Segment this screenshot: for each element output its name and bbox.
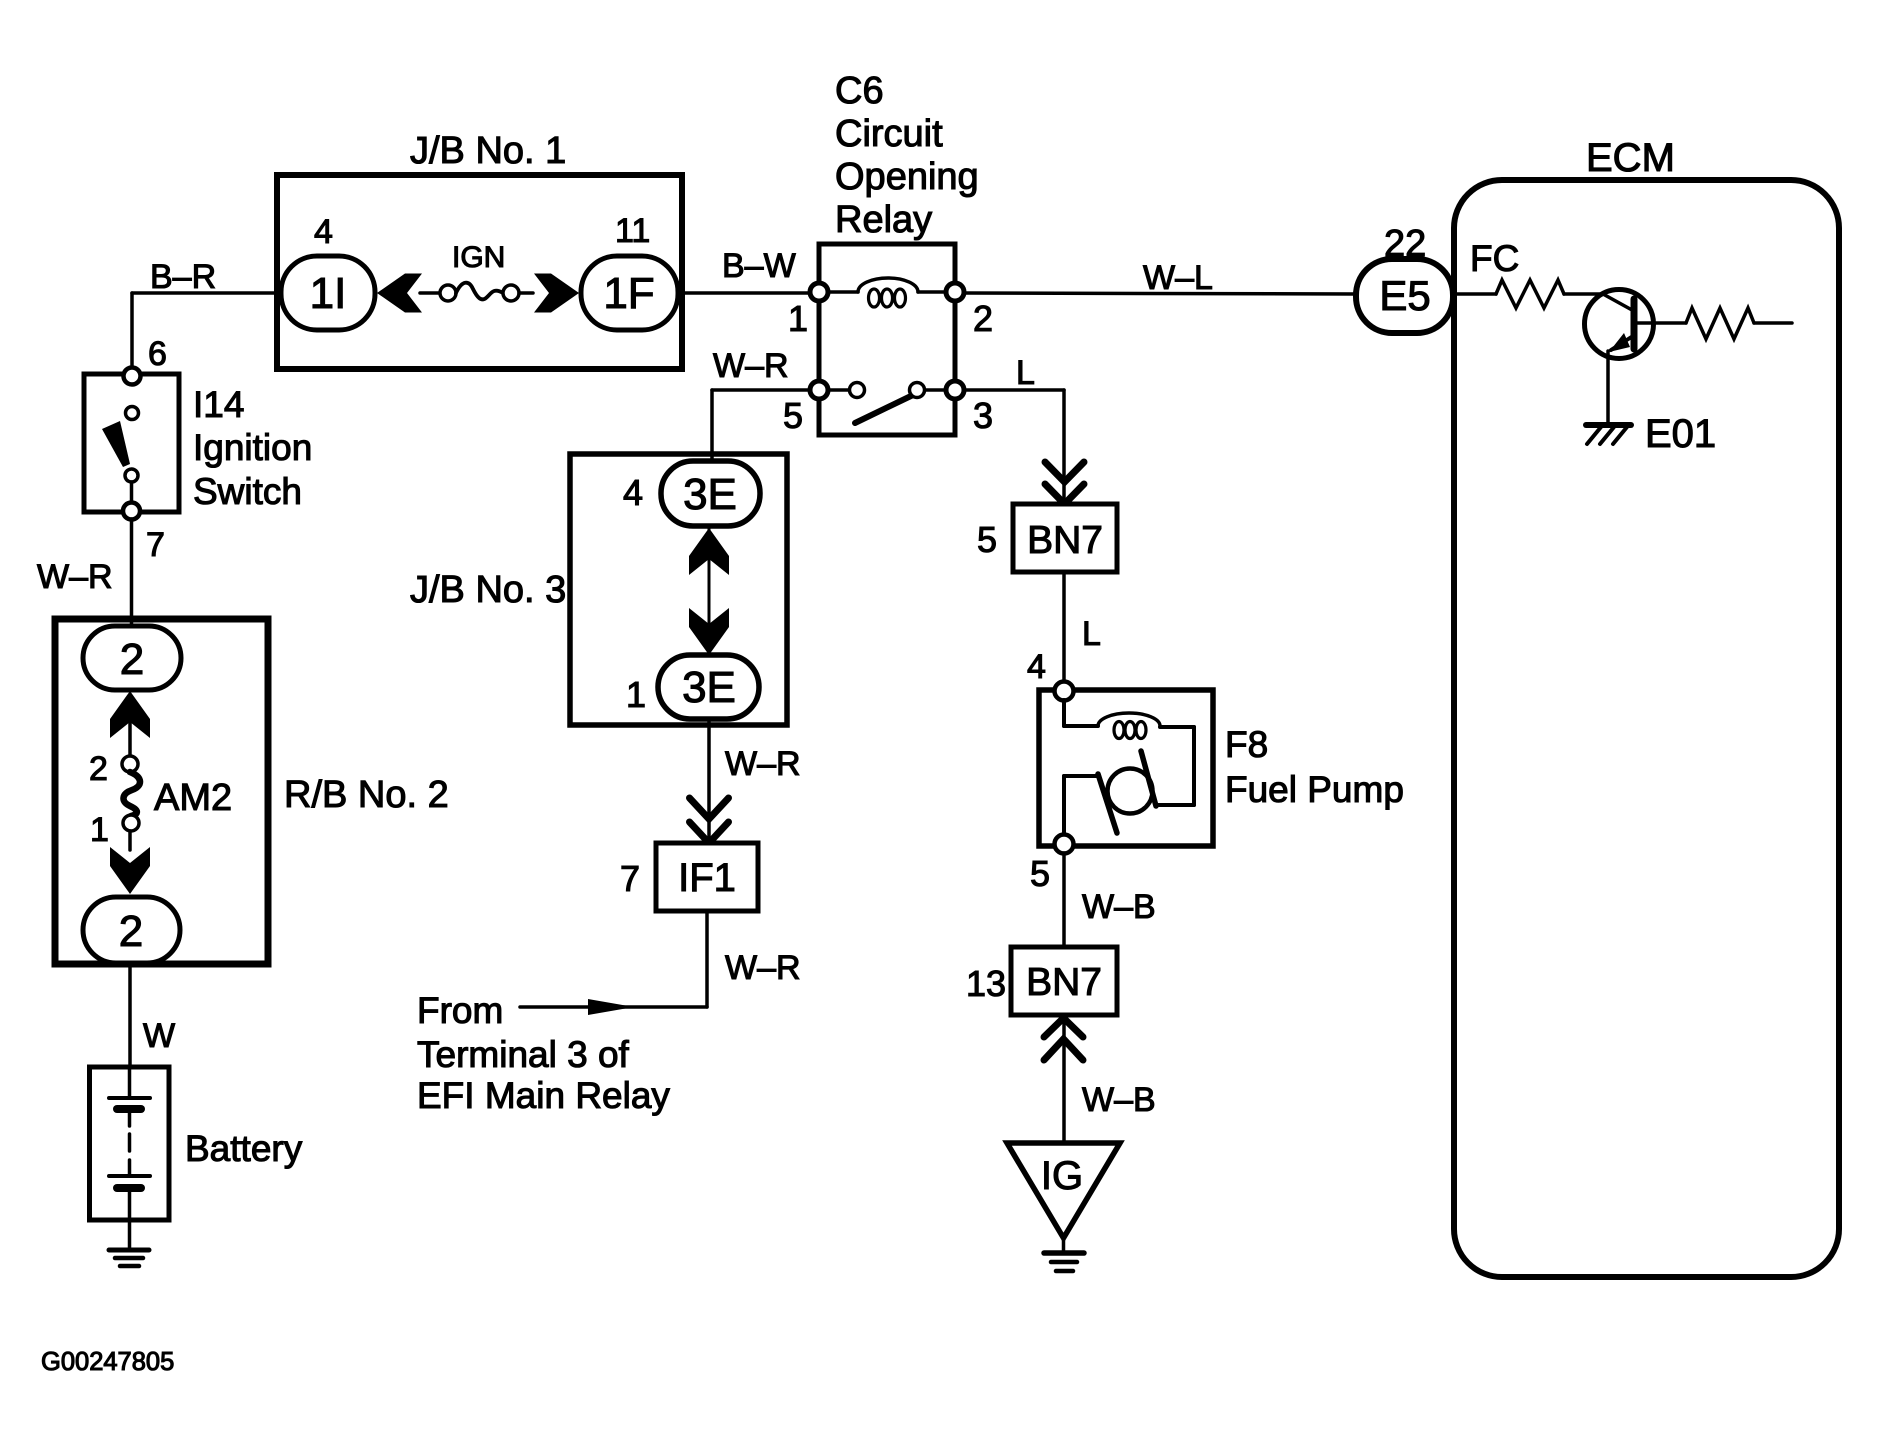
connector BN7 top box xyxy=(1013,504,1117,572)
relay coil xyxy=(858,278,918,292)
transistor Q1 xyxy=(1585,290,1654,359)
wire BN7 to IG xyxy=(1062,1015,1066,1143)
arrow right at 1F xyxy=(534,274,579,313)
svg-text:BN7: BN7 xyxy=(1026,961,1102,1004)
svg-text:2: 2 xyxy=(89,750,108,788)
connector BN7 bottom box xyxy=(1011,947,1117,1015)
svg-text:J/B No. 3: J/B No. 3 xyxy=(410,569,566,611)
wire between 3E ovals xyxy=(708,528,711,655)
svg-text:2: 2 xyxy=(973,298,993,339)
svg-text:R/B No. 2: R/B No. 2 xyxy=(284,774,449,816)
svg-text:AM2: AM2 xyxy=(154,777,232,819)
svg-text:IF1: IF1 xyxy=(678,856,736,900)
ignition switch I14 box xyxy=(84,374,179,512)
svg-text:Switch: Switch xyxy=(193,471,302,512)
wire pump to BN7 bottom xyxy=(1062,853,1066,947)
pump internal wiring right xyxy=(1160,725,1194,729)
pump motor M1 xyxy=(1108,769,1153,814)
svg-text:1I: 1I xyxy=(310,269,347,318)
connector 3E bottom xyxy=(658,655,759,719)
svg-text:EFI Main Relay: EFI Main Relay xyxy=(417,1075,670,1116)
svg-text:FC: FC xyxy=(1470,238,1519,279)
fuse AM2 terminal top xyxy=(122,756,138,772)
connector E5 xyxy=(1356,259,1453,333)
relay switch contact left xyxy=(828,388,850,392)
fuse AM2 element xyxy=(123,772,140,816)
wire switch to R/B xyxy=(130,519,134,628)
svg-text:Relay: Relay xyxy=(835,199,932,241)
svg-text:4: 4 xyxy=(1027,648,1046,686)
wire pin5 to J/B No.3 xyxy=(710,390,714,464)
connector 1I xyxy=(281,256,375,330)
wire fuse to arrow xyxy=(128,831,132,850)
svg-text:Terminal 3 of: Terminal 3 of xyxy=(417,1034,630,1075)
wire arrow to fuse xyxy=(128,722,132,757)
ECM box xyxy=(1454,180,1839,1277)
svg-text:ECM: ECM xyxy=(1586,136,1675,180)
svg-text:1: 1 xyxy=(788,298,808,339)
svg-text:4: 4 xyxy=(314,213,333,251)
junction block J/B No. 3 box xyxy=(570,454,787,725)
svg-text:E5: E5 xyxy=(1379,272,1430,319)
fuse IGN element xyxy=(456,283,503,300)
arrow up in J/B No.3 xyxy=(689,528,729,575)
svg-text:1: 1 xyxy=(626,674,646,715)
relay pin 3 node xyxy=(946,381,964,399)
fuse AM2 terminal bottom xyxy=(123,815,139,831)
wire 3E to IF1 xyxy=(707,719,711,843)
svg-text:13: 13 xyxy=(966,963,1006,1004)
connector 2 top xyxy=(83,626,181,690)
wire base xyxy=(1564,292,1603,296)
svg-text:IG: IG xyxy=(1041,1154,1083,1198)
svg-text:W: W xyxy=(143,1017,175,1055)
ground E01 xyxy=(1586,422,1631,428)
arrow left at 1I xyxy=(377,274,422,313)
fuse IGN terminal circle right xyxy=(503,285,519,301)
svg-text:W–R: W–R xyxy=(725,949,801,987)
svg-text:2: 2 xyxy=(120,635,144,684)
svg-text:3: 3 xyxy=(973,395,993,436)
pump internal wiring left xyxy=(1064,774,1099,778)
svg-text:W–B: W–B xyxy=(1082,1081,1156,1119)
wire to battery xyxy=(128,963,132,1067)
arrowhead on EFI wire xyxy=(588,999,634,1015)
svg-text:I14: I14 xyxy=(193,384,244,425)
battery internals xyxy=(128,1067,132,1096)
relay coil wire left stub xyxy=(828,290,858,294)
svg-text:5: 5 xyxy=(1030,853,1050,894)
svg-text:W–R: W–R xyxy=(713,347,789,385)
wire B-R horizontal xyxy=(132,291,284,295)
svg-text:6: 6 xyxy=(148,335,167,373)
svg-text:1: 1 xyxy=(90,811,109,849)
resistor R1 xyxy=(1496,280,1564,308)
wire fuse left stub xyxy=(420,291,441,295)
arrow chevrons to IF1 xyxy=(690,798,729,843)
svg-text:W–R: W–R xyxy=(725,745,801,783)
switch contact bottom xyxy=(125,469,138,482)
relay C6 box xyxy=(819,244,955,435)
junction block J/B No. 1 box xyxy=(277,175,682,369)
switch contact top xyxy=(126,407,139,420)
svg-text:7: 7 xyxy=(146,526,165,564)
svg-text:E01: E01 xyxy=(1645,412,1716,456)
svg-text:C6: C6 xyxy=(835,70,884,112)
wire FC inside ECM xyxy=(1453,292,1496,296)
svg-text:From: From xyxy=(417,990,503,1031)
fuel pump F8 box xyxy=(1039,690,1213,846)
wire IF1 down xyxy=(705,911,709,1007)
svg-text:5: 5 xyxy=(977,519,997,560)
relay switch contact right xyxy=(910,383,925,398)
svg-text:Battery: Battery xyxy=(185,1128,303,1169)
arrow up in R/B xyxy=(110,691,150,738)
svg-text:1F: 1F xyxy=(603,269,654,318)
svg-text:B–W: B–W xyxy=(722,247,796,285)
pump internal wiring top xyxy=(1062,700,1066,726)
arrow down in J/B No.3 xyxy=(689,608,729,655)
svg-text:Circuit: Circuit xyxy=(835,113,943,155)
svg-text:W–B: W–B xyxy=(1082,888,1156,926)
emitter xyxy=(1611,336,1633,350)
relay pin 5 node xyxy=(810,381,828,399)
ground triangle IG xyxy=(1007,1143,1120,1238)
relay/block R/B No. 2 box xyxy=(55,619,268,964)
pump coil xyxy=(1098,713,1160,726)
ground below battery xyxy=(109,1248,149,1253)
relay switch blade xyxy=(855,395,913,423)
relay pin 1 node xyxy=(810,283,828,301)
wire fuse right stub xyxy=(519,291,533,295)
connector 3E top xyxy=(661,461,760,526)
wire from EFI main relay xyxy=(520,1005,707,1009)
battery box xyxy=(90,1067,170,1220)
wire BN7 to pump xyxy=(1062,572,1066,684)
wire B-W xyxy=(678,291,812,295)
wire relay pin5 horizontal xyxy=(712,388,811,392)
switch wire to node7 xyxy=(130,482,134,503)
svg-text:B–R: B–R xyxy=(150,258,216,296)
wire B-R vertical xyxy=(130,293,134,368)
svg-text:3E: 3E xyxy=(683,470,737,519)
svg-text:Fuel Pump: Fuel Pump xyxy=(1225,769,1404,810)
svg-text:Opening: Opening xyxy=(835,156,979,198)
svg-text:L: L xyxy=(1016,354,1035,392)
svg-text:7: 7 xyxy=(620,858,640,899)
wire relay pin3 to BN7 xyxy=(964,388,1064,392)
wire W-L to ECM xyxy=(964,293,1358,294)
svg-text:4: 4 xyxy=(623,472,643,513)
svg-text:L: L xyxy=(1082,615,1101,653)
relay pin 2 node xyxy=(946,283,964,301)
resistor R2 xyxy=(1686,308,1754,339)
svg-text:F8: F8 xyxy=(1225,724,1268,765)
svg-text:G00247805: G00247805 xyxy=(41,1348,174,1376)
svg-text:5: 5 xyxy=(783,395,803,436)
switch blade wedge xyxy=(102,421,130,467)
pump node 5 xyxy=(1055,835,1074,854)
svg-text:W–R: W–R xyxy=(37,558,113,596)
svg-text:BN7: BN7 xyxy=(1027,519,1103,562)
collector wire xyxy=(1637,321,1686,325)
pump node 4 xyxy=(1055,682,1074,701)
connector IF1 box xyxy=(656,843,758,911)
collector wire end xyxy=(1754,321,1792,325)
node 7 xyxy=(123,503,140,520)
arrow chevrons to BN7 xyxy=(1045,462,1084,504)
ground below IG xyxy=(1062,1238,1066,1251)
svg-text:IGN: IGN xyxy=(452,241,505,274)
svg-text:J/B No. 1: J/B No. 1 xyxy=(410,130,566,172)
connector 2 bottom xyxy=(83,897,180,963)
svg-text:3E: 3E xyxy=(682,663,736,712)
connector 1F xyxy=(581,256,678,330)
fuse IGN terminal circle left xyxy=(440,285,456,301)
svg-text:Ignition: Ignition xyxy=(193,427,312,468)
svg-text:2: 2 xyxy=(119,907,143,956)
relay coil wire right stub xyxy=(918,290,948,294)
arrow chevrons up to BN7 xyxy=(1044,1018,1083,1060)
svg-text:W–L: W–L xyxy=(1143,259,1213,297)
svg-text:11: 11 xyxy=(615,212,650,250)
arrow down in R/B xyxy=(110,847,150,894)
